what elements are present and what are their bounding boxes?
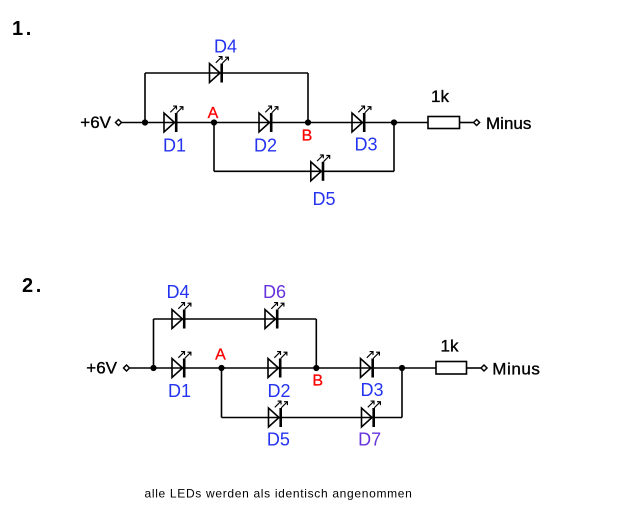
- LED D1 circuit 1: [164, 106, 183, 132]
- svg-text:D7: D7: [358, 430, 381, 450]
- svg-text:D1: D1: [163, 136, 186, 156]
- LED D1 circuit 2: [172, 352, 191, 378]
- wire: [153, 319, 155, 368]
- LED D4 circuit 2: [172, 303, 191, 329]
- svg-text:1k: 1k: [431, 87, 449, 106]
- junction: [142, 119, 148, 125]
- wire: [213, 123, 215, 172]
- svg-text:D5: D5: [267, 430, 290, 450]
- wire: [122, 122, 145, 124]
- wire: [144, 73, 146, 123]
- LED D6 circuit 2: [265, 303, 284, 329]
- wire: [315, 319, 317, 368]
- wire: [393, 123, 395, 172]
- svg-text:D1: D1: [168, 381, 191, 401]
- wire: [154, 318, 317, 320]
- svg-text:D4: D4: [166, 282, 189, 302]
- svg-text:1.: 1.: [12, 18, 34, 40]
- svg-text:+6V: +6V: [86, 359, 117, 378]
- terminal +6V circuit 1: [116, 120, 122, 126]
- svg-text:alle LEDs werden als identisch: alle LEDs werden als identisch angenomme…: [145, 487, 413, 501]
- junction: [391, 119, 397, 125]
- terminal Minus circuit 2: [481, 365, 487, 371]
- svg-text:D3: D3: [354, 135, 377, 155]
- resistor R1 1k circuit 1: [428, 117, 460, 129]
- wire: [222, 417, 403, 419]
- svg-text:Minus: Minus: [486, 114, 531, 133]
- node B circuit 2: [313, 365, 319, 371]
- svg-text:B: B: [312, 373, 323, 390]
- wire: [307, 73, 309, 123]
- wire: [130, 367, 154, 369]
- svg-text:Minus: Minus: [492, 360, 540, 379]
- LED D4 circuit 1: [210, 57, 229, 83]
- wire: [460, 122, 474, 124]
- wire: [401, 368, 403, 418]
- wire: [467, 367, 482, 369]
- terminal Minus circuit 1: [474, 120, 480, 126]
- LED D2 circuit 1: [259, 106, 278, 132]
- LED D3 circuit 2: [361, 352, 380, 378]
- junction: [399, 365, 405, 371]
- svg-text:A: A: [215, 347, 226, 364]
- wire: [145, 122, 214, 124]
- wire: [154, 367, 222, 369]
- svg-text:1k: 1k: [441, 337, 459, 356]
- junction: [150, 365, 156, 371]
- node A circuit 2: [218, 365, 224, 371]
- svg-text:D6: D6: [263, 282, 286, 302]
- wire: [221, 368, 223, 418]
- wire: [308, 122, 394, 124]
- resistor R2 1k circuit 2: [436, 362, 467, 375]
- svg-text:B: B: [302, 128, 313, 145]
- wire: [402, 367, 436, 369]
- svg-text:D5: D5: [312, 189, 335, 209]
- svg-text:D2: D2: [254, 136, 277, 156]
- LED D5 circuit 2: [269, 401, 288, 427]
- wire: [145, 72, 308, 74]
- wire: [394, 122, 428, 124]
- svg-text:A: A: [208, 105, 219, 122]
- node B circuit 1: [305, 119, 311, 125]
- node A circuit 1: [211, 119, 217, 125]
- svg-text:D2: D2: [267, 381, 290, 401]
- svg-text:D3: D3: [360, 380, 383, 400]
- LED D3 circuit 1: [352, 106, 371, 132]
- wire: [222, 367, 317, 369]
- LED D5 circuit 1: [311, 155, 330, 181]
- wire: [214, 170, 394, 172]
- wire: [214, 122, 308, 124]
- svg-text:+6V: +6V: [80, 113, 111, 132]
- LED D7 circuit 2: [362, 401, 381, 427]
- LED D2 circuit 2: [268, 352, 287, 378]
- svg-text:D4: D4: [214, 37, 237, 57]
- terminal +6V circuit 2: [124, 365, 130, 371]
- wire: [316, 367, 402, 369]
- svg-text:2.: 2.: [22, 275, 44, 297]
